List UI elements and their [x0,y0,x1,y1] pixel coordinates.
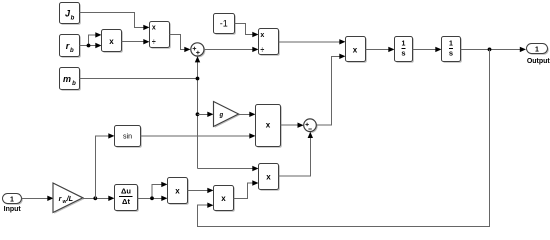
wire Integrator1 to Integrator2 [413,47,442,52]
integrator block I2 (1/s) [442,37,462,63]
wire ProductE to Integrator1 [366,47,395,52]
svg-text:1: 1 [10,196,14,203]
product block A (du/dt squared) [168,178,189,205]
svg-text:sin: sin [123,134,132,141]
junction dot du/dt branch [150,196,154,200]
wire bus to Gain g [198,112,214,117]
svg-text:Δt: Δt [122,197,130,206]
wire ProductB to ProductC lower input [234,180,259,198]
svg-text:x: x [152,24,156,31]
derivative block du/dt [115,185,139,212]
wire rw/L to du/dt [83,196,115,201]
svg-text:÷: ÷ [260,47,264,54]
product block B [214,186,235,212]
wire branch up to sin [96,133,115,198]
svg-text:x: x [353,45,358,54]
wire Sum1 to Divide2 divide-port [204,47,259,52]
svg-text:1: 1 [402,41,406,48]
product block E [346,37,367,63]
sum block S2 [304,119,318,133]
wire Input to Gain rw/L [22,196,54,201]
wire D2 to ProductE upper input [279,39,346,44]
wire sin to ProductD lower input [141,133,256,138]
input port 1 [3,194,23,205]
svg-text:x: x [260,32,264,39]
wire Gain g to ProductD upper input [239,112,256,117]
integrator block I1 (1/s) [395,37,414,63]
svg-text:x: x [175,186,180,195]
wire ProductA to ProductB upper input [188,188,214,193]
wire Jb to Divide1 x-port [80,13,150,30]
divide block D1 [150,22,171,49]
divide block D2 [259,29,280,56]
trigonometry block sin [115,126,142,148]
wire ProductD to Sum2 [281,123,304,128]
svg-text:s: s [401,49,405,58]
product block C [259,164,280,191]
junction dot output feedback [488,48,492,52]
wire Integrator2 to Output port [461,47,527,52]
svg-text:Output: Output [527,58,550,65]
constant block -1 [214,14,236,35]
wire -1 to Divide2 x-port [235,24,259,38]
svg-text:b: b [72,81,76,87]
wire feedback output to ProductB lower input [198,49,490,226]
svg-text:÷: ÷ [152,39,156,46]
sum block S1 [191,43,206,58]
svg-text:1: 1 [449,41,453,48]
svg-text:b: b [70,48,74,54]
wire bus to ProductC upper input [198,166,259,171]
svg-text:b: b [71,16,75,22]
svg-text:Input: Input [4,206,22,213]
junction dot rb branch [87,44,91,48]
svg-text:1: 1 [535,46,539,53]
junction dot mb-bus [196,77,200,81]
svg-text:-1: -1 [220,19,228,29]
svg-text:g: g [218,112,223,118]
wire Sum2 to ProductE lower input [316,54,345,125]
gain block g [214,102,240,128]
svg-text:/L: /L [66,194,73,203]
wire P1 to Divide1 divide-port [122,39,150,44]
product block D (g x sin) [256,105,282,148]
wire mb to vertical bus [80,78,198,80]
svg-text:m: m [63,74,71,84]
svg-text:x: x [221,194,226,203]
svg-text:x: x [266,121,271,130]
gain block rw/L [53,183,84,214]
svg-text:Δu: Δu [121,187,131,196]
output port 1 [527,44,549,55]
wire rb to Product1 lower input [80,43,102,48]
wire D1 to Sum1 [170,35,191,53]
wire du/dt to ProductA lower input [138,196,168,201]
wire rb branch to Product1 upper input [89,32,102,45]
svg-text:x: x [266,172,271,181]
product block P1 (rb squared) [102,30,123,53]
constant block rb [60,35,81,58]
wire du/dt branch to ProductA upper input [152,182,168,199]
wire ProductC to Sum2 bottom [279,132,314,176]
svg-text:x: x [109,37,114,46]
wire bus vertical into Sum1 bottom [195,56,200,168]
constant block mb [60,68,81,91]
junction dot bus-gain [196,112,200,116]
constant block Jb [60,3,81,25]
junction dot rw/L branch [93,196,97,200]
svg-text:s: s [449,49,453,58]
